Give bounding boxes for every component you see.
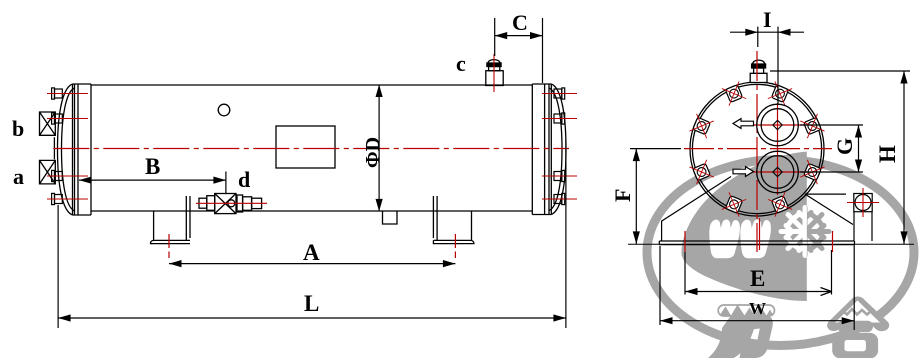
bracket square with hole bbox=[854, 194, 872, 212]
svg-text:b: b bbox=[12, 116, 24, 141]
watermark character he bbox=[827, 297, 889, 358]
svg-text:a: a bbox=[13, 164, 24, 189]
base right slant bbox=[805, 194, 853, 224]
base left slant bbox=[662, 177, 731, 242]
end flange bolt 3 (112.5 deg) bbox=[722, 81, 746, 105]
end flange bolt 1 (22.5 deg) bbox=[800, 114, 824, 138]
bracket white plate bbox=[854, 212, 872, 241]
leg 2 bbox=[433, 196, 474, 244]
vent circle bbox=[218, 104, 230, 116]
svg-text:H: H bbox=[875, 145, 900, 163]
end flange bolt 6 (247.5 deg) bbox=[722, 192, 746, 216]
thin reference line bbox=[628, 243, 914, 245]
lower water port (inlet) bbox=[757, 151, 799, 193]
svg-text:W: W bbox=[749, 299, 766, 318]
svg-text:A: A bbox=[303, 240, 320, 265]
flow arrow out (left) bbox=[733, 119, 754, 129]
watermark snowflake bbox=[781, 208, 829, 256]
dim E bbox=[685, 250, 832, 296]
dim W bbox=[660, 245, 854, 330]
valve d red line bbox=[196, 202, 267, 204]
dim PhiD bbox=[376, 85, 383, 212]
red bolt lines left bbox=[47, 94, 88, 200]
end view red centerlines bbox=[684, 51, 832, 252]
right head bbox=[551, 84, 566, 215]
head bolts right bbox=[554, 88, 565, 205]
end view top fitting bbox=[750, 60, 767, 82]
nozzle a bbox=[40, 160, 56, 184]
dim I bbox=[730, 27, 804, 104]
main red centerline bbox=[53, 148, 569, 150]
base of end view bbox=[628, 177, 914, 245]
left head bbox=[58, 84, 73, 215]
right flange bbox=[532, 84, 551, 215]
watermark character wan bbox=[708, 304, 775, 358]
dim A bbox=[169, 260, 455, 267]
nozzle face line bbox=[53, 137, 55, 159]
fitting c bbox=[486, 60, 503, 86]
end flange bolt 5 (202.5 deg) bbox=[689, 160, 713, 184]
end flange bolt 4 (157.5 deg) bbox=[689, 114, 713, 138]
nameplate bbox=[276, 126, 335, 168]
svg-text:L: L bbox=[304, 291, 319, 316]
watermark W glyph (white) bbox=[709, 220, 740, 259]
left flange bbox=[73, 84, 92, 215]
fitting c red centerline bbox=[493, 54, 495, 92]
leg 1 bbox=[151, 196, 191, 244]
head bolts left bbox=[52, 88, 63, 205]
upper water port (outlet) bbox=[757, 104, 799, 146]
svg-text:E: E bbox=[750, 266, 765, 291]
svg-text:G: G bbox=[832, 138, 857, 155]
dim F bbox=[630, 149, 681, 244]
nozzle b bbox=[40, 112, 56, 135]
svg-text:ΦD: ΦD bbox=[362, 137, 384, 168]
svg-text:c: c bbox=[456, 51, 466, 76]
small tab under shell bbox=[383, 211, 398, 224]
base plate bbox=[659, 241, 854, 245]
leg red ticks bbox=[169, 234, 455, 258]
svg-text:I: I bbox=[763, 7, 772, 32]
svg-text:F: F bbox=[610, 189, 635, 202]
watermark ellipse ring bbox=[647, 160, 914, 346]
end view circle bbox=[690, 82, 824, 216]
red bolt lines right bbox=[542, 94, 577, 200]
shell body bbox=[91, 85, 532, 211]
red plate ticks bbox=[685, 218, 833, 252]
watermark gray blob (left inner fill) bbox=[681, 152, 806, 302]
svg-text:B: B bbox=[145, 154, 160, 179]
svg-text:C: C bbox=[512, 10, 528, 35]
dim G bbox=[800, 125, 863, 172]
dim B bbox=[79, 172, 226, 194]
bracket hole red cross bbox=[847, 188, 879, 217]
dim C bbox=[495, 18, 543, 83]
end flange bolt 7 (292.5 deg) bbox=[768, 192, 792, 216]
end flange bolt 8 (337.5 deg) bbox=[800, 160, 824, 184]
end flange bolt 2 (67.5 deg) bbox=[768, 81, 792, 105]
dim H bbox=[770, 71, 910, 244]
dim L bbox=[58, 140, 566, 328]
flow arrow in (right) bbox=[733, 167, 754, 177]
svg-text:d: d bbox=[238, 167, 250, 192]
valve d bbox=[199, 194, 262, 214]
